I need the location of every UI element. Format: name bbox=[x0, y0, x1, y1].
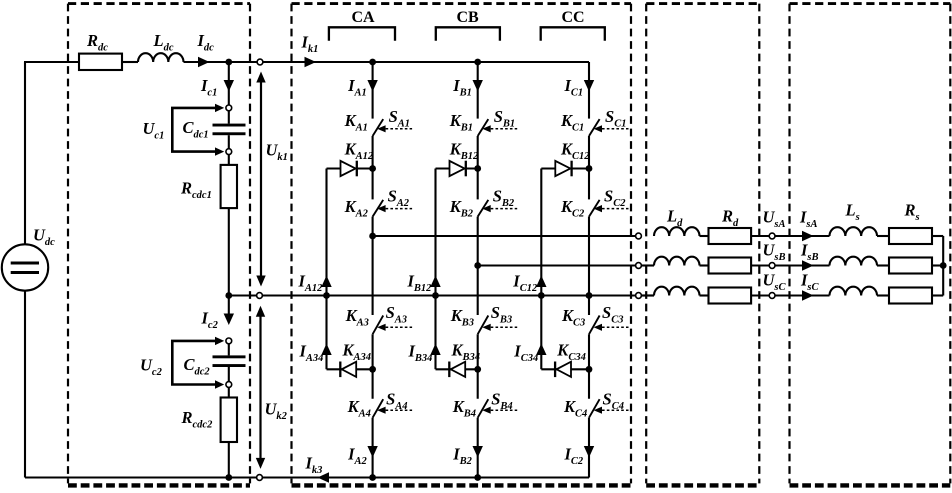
wire: to R_dc bbox=[24, 61, 79, 63]
inductor L_d line A bbox=[654, 227, 700, 236]
wire: leg A clamp branch bbox=[325, 169, 327, 370]
current arrow I_dc bbox=[198, 57, 210, 67]
terminal circle U_sC bbox=[769, 293, 775, 299]
phase bracket CC bbox=[541, 27, 605, 41]
wire: bottom rail bbox=[25, 476, 589, 478]
inductor L_dc bbox=[138, 53, 184, 62]
current arrow I_A1 bbox=[367, 80, 377, 92]
wire: leg B clamp branch bbox=[434, 169, 436, 370]
node circle below C_dc2 bbox=[226, 382, 232, 388]
terminal circle bottom rail bbox=[257, 475, 263, 481]
voltage bracket U_c1 bbox=[172, 104, 224, 156]
current arrow I_C34 bbox=[536, 344, 546, 356]
current arrow I_sB bbox=[802, 260, 814, 270]
switch K_C1 bbox=[589, 119, 629, 136]
junction: leg C branch / neutral rail bbox=[538, 292, 545, 299]
resistor R_cdc1 bbox=[221, 165, 237, 208]
resistor R_d line B bbox=[709, 258, 752, 274]
resistor R_dc bbox=[79, 54, 122, 70]
wire: circle C to L_d bbox=[641, 294, 654, 296]
diode K_A12 bbox=[327, 161, 373, 177]
junction: leg A upper diode node bbox=[369, 165, 376, 172]
junction: leg A bottom rail bbox=[369, 474, 376, 481]
wire: U_sC to L_s bbox=[775, 294, 830, 296]
voltage arrow U_k1 bbox=[256, 72, 265, 287]
diode K_B12 bbox=[436, 161, 478, 177]
DC source U_dc bbox=[2, 244, 48, 290]
current arrow I_C2 bbox=[584, 446, 594, 458]
wire: U_sB to L_s bbox=[775, 264, 830, 266]
junction: leg A branch / neutral rail bbox=[323, 292, 330, 299]
switch K_C2 bbox=[589, 200, 629, 217]
wire: source top to top rail bbox=[24, 62, 26, 244]
junction: load star point bbox=[940, 262, 947, 269]
junction: output A tap bbox=[369, 233, 376, 240]
filter input circle C bbox=[636, 293, 642, 299]
capacitor C_dc2 bbox=[213, 355, 246, 367]
junction: DC-link midpoint bbox=[225, 292, 232, 299]
wire: leg C top segment bbox=[588, 62, 590, 119]
resistor R_s line A bbox=[889, 228, 932, 244]
wire: leg A top segment bbox=[372, 62, 374, 119]
dashed box: DC-link section bbox=[68, 4, 250, 486]
voltage arrow U_k2 bbox=[256, 306, 265, 469]
resistor R_d line C bbox=[709, 288, 752, 304]
switch K_B1 bbox=[478, 119, 518, 136]
inductor L_d line B bbox=[654, 257, 700, 266]
wire to C_dc1 top plate bbox=[228, 111, 230, 124]
wire: R_d to U_sC terminal bbox=[751, 294, 769, 296]
svg-text:CA: CA bbox=[352, 9, 376, 26]
inductor L_s line A bbox=[830, 227, 877, 236]
resistor R_s line C bbox=[889, 288, 932, 304]
wire: circle C to L_d bbox=[641, 294, 654, 296]
wire: leg C clamp branch bbox=[540, 169, 542, 370]
wire C_dc2 to circle bbox=[228, 367, 230, 382]
current arrow I_A34 bbox=[321, 344, 331, 356]
switch K_A1 bbox=[373, 119, 413, 136]
current arrow I_sA bbox=[802, 231, 814, 241]
wire: L_s to R_s line B bbox=[877, 264, 889, 266]
junction: DC-link bottom bbox=[225, 474, 232, 481]
diode K_A34 bbox=[327, 362, 373, 378]
wire: R_s to bus line B bbox=[932, 264, 943, 266]
wire to C_dc2 bbox=[228, 344, 230, 356]
resistor R_d line A bbox=[709, 228, 752, 244]
current arrow I_A2 bbox=[367, 446, 377, 458]
switch K_B4 bbox=[478, 399, 518, 418]
wire: leg B top segment bbox=[477, 62, 479, 119]
wire: R_s to bus line A bbox=[932, 235, 943, 237]
junction: top rail / DC-link bbox=[225, 59, 232, 66]
dashed box: load section bbox=[790, 4, 951, 486]
inductor L_d line C bbox=[654, 287, 700, 296]
wire: leg A seg KA1-KA2 bbox=[372, 136, 374, 199]
junction: leg A lower diode node bbox=[369, 366, 376, 373]
junction: output B tap bbox=[474, 262, 481, 269]
junction: leg A top rail bbox=[369, 59, 376, 66]
wire: R_d to U_sB terminal bbox=[751, 264, 769, 266]
wire: R_s to bus line C bbox=[932, 294, 943, 296]
switch K_A3 bbox=[373, 316, 413, 335]
wire to R_cdc2 bbox=[228, 387, 230, 397]
wire to R_cdc1 bbox=[228, 155, 230, 165]
current arrow I_c2 bbox=[224, 314, 234, 326]
junction: output C tap bbox=[586, 292, 593, 299]
resistor R_s line B bbox=[889, 258, 932, 274]
wire R_cdc2 to bottom rail bbox=[228, 442, 230, 478]
wire: U_sA to L_s bbox=[775, 235, 830, 237]
capacitor C_dc1 bbox=[213, 124, 246, 136]
dashed box: filter section bbox=[646, 4, 759, 486]
current arrow I_B2 bbox=[473, 446, 483, 458]
current arrow I_k3 bbox=[318, 472, 330, 482]
junction: leg B lower diode node bbox=[474, 366, 481, 373]
phase bracket CB bbox=[436, 27, 500, 41]
wire: L_d to R_d line C bbox=[700, 294, 709, 296]
current arrow I_sC bbox=[802, 290, 814, 300]
wire: leg C middle segment bbox=[588, 217, 590, 315]
terminal circle U_sB bbox=[769, 263, 775, 269]
diode K_C12 bbox=[541, 161, 589, 177]
junction: leg B bottom rail bbox=[474, 474, 481, 481]
current arrow I_C12 bbox=[536, 276, 546, 288]
wire: leg A seg KA3-KA4 bbox=[372, 334, 374, 399]
wire: top rail bbox=[184, 61, 590, 63]
inductor L_s line B bbox=[830, 257, 877, 266]
switch K_C3 bbox=[589, 316, 629, 335]
switch K_C4 bbox=[589, 399, 629, 418]
wire: leg B bottom segment bbox=[477, 418, 479, 478]
svg-text:CB: CB bbox=[457, 9, 480, 26]
terminal circle mid rail bbox=[257, 293, 263, 299]
wire: R_d to U_sA terminal bbox=[751, 235, 769, 237]
wire: leg C bottom segment bbox=[588, 418, 590, 478]
current arrow I_A12 bbox=[321, 276, 331, 288]
wire: leg C seg KC1-KC2 bbox=[588, 136, 590, 199]
wire: L_d to R_d line B bbox=[700, 264, 709, 266]
current arrow I_c1 bbox=[224, 80, 234, 92]
filter input circle B bbox=[636, 263, 642, 269]
wire: load star bus bbox=[942, 236, 944, 296]
current arrow I_B34 bbox=[430, 344, 440, 356]
wire: leg A bottom segment bbox=[372, 418, 374, 478]
switch K_B2 bbox=[478, 200, 518, 217]
junction: leg C upper diode node bbox=[586, 165, 593, 172]
phase bracket CA bbox=[329, 27, 395, 41]
wire: leg B middle segment bbox=[477, 217, 479, 315]
wire C_dc1 to circle bbox=[228, 135, 230, 149]
wire: top rail to C_dc1 bbox=[228, 62, 230, 105]
junction: leg C lower diode node bbox=[586, 366, 593, 373]
voltage bracket U_c2 bbox=[172, 337, 224, 389]
filter input circle A bbox=[636, 233, 642, 239]
terminal circle top rail bbox=[257, 59, 263, 65]
wire: leg B seg KB1-KB2 bbox=[477, 136, 479, 199]
switch K_A4 bbox=[373, 399, 413, 418]
wire: circle B to L_d bbox=[641, 264, 654, 266]
wire: L_d to R_d line A bbox=[700, 235, 709, 237]
switch K_B3 bbox=[478, 316, 518, 335]
diode K_C34 bbox=[541, 362, 589, 378]
diode K_B34 bbox=[436, 362, 478, 378]
current arrow I_C1 bbox=[584, 80, 594, 92]
wire: leg B seg KB3-KB4 bbox=[477, 334, 479, 399]
node circle above C_dc1 bbox=[226, 105, 232, 111]
wire: L_s to R_s line A bbox=[877, 235, 889, 237]
wire: source bottom to bottom rail bbox=[24, 291, 26, 478]
switch K_A2 bbox=[373, 200, 413, 217]
dashed box: converter section bbox=[292, 4, 632, 486]
current arrow I_k1 bbox=[305, 57, 317, 67]
node circle above C_dc2 bbox=[226, 338, 232, 344]
resistor R_cdc2 bbox=[221, 398, 237, 443]
junction: leg B top rail bbox=[474, 59, 481, 66]
junction: leg B upper diode node bbox=[474, 165, 481, 172]
wire: neutral / output C rail bbox=[229, 294, 636, 296]
wire: leg A middle segment bbox=[372, 217, 374, 315]
wire R_cdc1 to mid rail bbox=[228, 208, 230, 295]
inductor L_s line C bbox=[830, 287, 877, 296]
wire: leg C seg KC3-KC4 bbox=[588, 334, 590, 399]
node circle below C_dc1 bbox=[226, 149, 232, 155]
wire: L_s to R_s line C bbox=[877, 294, 889, 296]
junction: leg B branch / neutral rail bbox=[432, 292, 439, 299]
wire: R_dc to L_dc bbox=[122, 61, 138, 63]
wire: output rail A bbox=[373, 235, 636, 237]
svg-text:CC: CC bbox=[562, 9, 585, 26]
terminal circle U_sA bbox=[769, 233, 775, 239]
current arrow I_B1 bbox=[473, 80, 483, 92]
wire: output rail B bbox=[478, 264, 636, 266]
current arrow I_B12 bbox=[430, 276, 440, 288]
wire: mid rail to C_dc2 bbox=[228, 296, 230, 323]
